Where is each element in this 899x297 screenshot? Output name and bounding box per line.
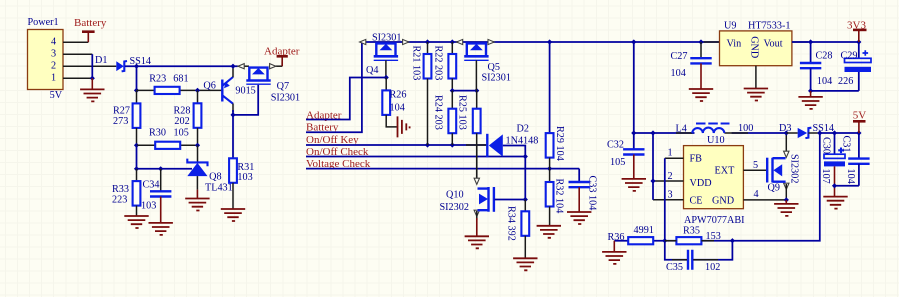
pin 4 stub	[63, 41, 88, 43]
wire ref row	[137, 145, 193, 169]
ground under U9	[744, 89, 768, 101]
svg-text:U10: U10	[707, 135, 725, 146]
svg-text:C31: C31	[841, 136, 852, 153]
ground under C27	[700, 63, 702, 89]
capacitor C33	[569, 169, 598, 211]
svg-text:C35: C35	[666, 262, 683, 273]
node rail R21	[425, 39, 430, 44]
svg-text:5V: 5V	[50, 90, 63, 101]
svg-text:226: 226	[838, 76, 853, 87]
ground under C33	[578, 187, 580, 212]
svg-text:GND: GND	[712, 196, 734, 207]
ground under C30 C31	[834, 166, 836, 196]
svg-text:U9: U9	[724, 21, 736, 32]
node rail R22	[450, 39, 455, 44]
wire Q4 gate down	[385, 60, 387, 77]
node base-R28	[195, 88, 200, 93]
resistor R35	[676, 226, 720, 245]
svg-text:Vin: Vin	[727, 39, 742, 50]
svg-text:104: 104	[845, 169, 856, 184]
resistor R32	[546, 169, 565, 226]
node C34 top	[158, 166, 163, 171]
node Q4 gate adapter	[384, 75, 389, 80]
svg-text:Q5: Q5	[488, 62, 500, 73]
node C35 right	[730, 238, 735, 243]
svg-text:104: 104	[390, 103, 405, 114]
wire FB down	[664, 158, 666, 241]
svg-text:On/Off Key: On/Off Key	[306, 134, 359, 146]
svg-text:Q7: Q7	[277, 81, 289, 92]
resistor R25	[457, 91, 481, 180]
node FB join	[662, 238, 667, 243]
svg-text:R25 103: R25 103	[457, 95, 468, 130]
svg-text:D1: D1	[95, 55, 107, 66]
svg-text:104: 104	[817, 76, 832, 87]
svg-text:9015: 9015	[235, 86, 255, 97]
svg-text:4: 4	[51, 37, 56, 48]
wire down to R23 row	[136, 66, 138, 90]
net label Battery	[306, 42, 362, 134]
pin 5 EXT	[743, 160, 766, 171]
net label Adapter	[306, 78, 386, 122]
svg-text:Q4: Q4	[366, 65, 378, 76]
resistor R34	[506, 200, 530, 259]
svg-text:3: 3	[668, 190, 673, 201]
node vcheck R32	[547, 166, 552, 171]
node C28	[808, 39, 813, 44]
wire rail down to L4	[633, 42, 635, 149]
pin 1 FB	[665, 148, 684, 159]
node ref left	[134, 166, 139, 171]
transistor Q6 9015	[203, 66, 255, 112]
svg-text:104: 104	[671, 68, 686, 79]
svg-text:CE: CE	[690, 196, 703, 207]
capacitor C30 polarized	[820, 133, 845, 184]
svg-text:1: 1	[51, 73, 56, 84]
resistor R22	[433, 42, 457, 91]
pin 2 stub	[63, 65, 116, 67]
svg-text:R33: R33	[112, 184, 129, 195]
svg-text:5: 5	[753, 160, 758, 171]
svg-text:1: 1	[668, 148, 673, 159]
capacitor C29 polarized	[838, 42, 871, 87]
ground under Q8	[196, 190, 198, 199]
capacitor C31	[835, 133, 870, 186]
ground under R34	[513, 258, 537, 270]
svg-text:D3: D3	[779, 123, 791, 134]
resistor R33	[112, 169, 140, 216]
svg-text:R35: R35	[683, 226, 700, 237]
svg-text:103: 103	[237, 172, 252, 183]
wire U10 supply	[652, 133, 654, 200]
junction pin1	[90, 76, 95, 81]
svg-text:102: 102	[705, 262, 720, 273]
pin 3 CE	[653, 190, 684, 201]
power port Adapter (left)	[264, 46, 300, 67]
svg-text:C32: C32	[607, 140, 624, 151]
svg-text:VDD: VDD	[690, 178, 712, 189]
svg-text:R22 203: R22 203	[433, 46, 444, 81]
svg-text:C27: C27	[671, 51, 688, 62]
net label Voltage Check	[306, 158, 579, 170]
ground under Q9	[785, 200, 787, 204]
node C30 C31 gnd join	[832, 183, 837, 188]
pin 1 stub	[63, 77, 92, 79]
wire Q7 drain up	[281, 61, 283, 66]
svg-text:100: 100	[738, 123, 753, 134]
wire U9 gnd pin	[755, 66, 757, 89]
resistor R31	[229, 158, 254, 209]
node D2 gate row	[523, 197, 528, 202]
node C30	[832, 130, 837, 135]
wire D1 cathode rail	[125, 65, 238, 67]
transistor Q4 SI2301	[360, 33, 409, 77]
resistor R30	[149, 128, 189, 149]
node Q9 drain	[784, 130, 789, 135]
svg-text:R21 103: R21 103	[411, 46, 422, 81]
diode D2 1N4148	[466, 124, 538, 158]
svg-text:Power1: Power1	[28, 17, 59, 28]
svg-text:105: 105	[174, 128, 189, 139]
node R30 right	[195, 143, 200, 148]
svg-text:SI2302: SI2302	[789, 154, 800, 183]
svg-text:C30: C30	[821, 137, 832, 154]
resistor R36	[608, 225, 654, 244]
node feedback	[817, 130, 822, 135]
svg-text:SI2301: SI2301	[482, 73, 511, 84]
svg-text:C33 104: C33 104	[587, 176, 598, 211]
svg-text:R29 104: R29 104	[554, 126, 565, 161]
chip U10 APW7077ABI	[684, 135, 746, 226]
regulator Q8 TL431	[187, 145, 232, 193]
wire 5V row	[820, 132, 859, 134]
svg-text:Q9: Q9	[768, 183, 780, 194]
node VDD	[650, 178, 655, 183]
node C31 5V	[856, 130, 861, 135]
ground left of R36	[613, 241, 615, 252]
resistor R28	[174, 90, 202, 145]
resistor R21	[411, 42, 432, 145]
svg-text:Vout: Vout	[764, 39, 783, 50]
power port 5V	[853, 110, 867, 133]
transistor Q9 SI2302	[767, 133, 799, 200]
inductor L4	[676, 123, 754, 134]
node key R24	[450, 142, 455, 147]
ground under C32	[633, 155, 635, 179]
svg-text:5V: 5V	[853, 110, 867, 122]
svg-text:L4: L4	[676, 124, 687, 135]
net label On/Off Key	[306, 134, 486, 146]
svg-text:FB: FB	[690, 154, 703, 165]
svg-text:TL431: TL431	[205, 182, 233, 193]
svg-text:Battery: Battery	[74, 17, 107, 29]
node rail C27	[698, 39, 703, 44]
power port Battery	[74, 17, 107, 42]
capacitor C34	[141, 169, 171, 212]
node Q7 gate tie	[230, 112, 235, 117]
ground under connector	[91, 78, 93, 89]
node C28 gnd	[808, 88, 813, 93]
svg-text:EXT: EXT	[715, 166, 736, 177]
ground under R33	[124, 216, 148, 228]
regulator U9 HT7533-1	[720, 21, 792, 66]
ground under Q10	[476, 218, 478, 236]
node R23 left	[134, 88, 139, 93]
svg-text:681: 681	[173, 73, 188, 84]
pin 3 stub	[63, 53, 92, 55]
node key R21	[425, 142, 430, 147]
transistor Q5 SI2301	[457, 39, 511, 83]
node R30 left	[134, 143, 139, 148]
wire Q5 gate down	[475, 60, 477, 90]
pin 4 GND	[743, 189, 786, 200]
svg-text:R30: R30	[149, 128, 166, 139]
svg-text:C29: C29	[841, 51, 858, 62]
wire feedback down	[614, 133, 820, 241]
ground under R32	[537, 226, 561, 238]
svg-text:GND: GND	[749, 36, 760, 58]
svg-text:R24 203: R24 203	[433, 95, 444, 130]
wire pin3 to pin1	[91, 54, 93, 78]
node check D2	[523, 154, 528, 159]
svg-text:C28: C28	[816, 51, 833, 62]
node rail R29	[547, 39, 552, 44]
wire L4 row	[634, 132, 786, 134]
svg-text:202: 202	[174, 116, 189, 127]
connector Power1	[28, 17, 64, 101]
svg-text:Q8: Q8	[209, 172, 221, 183]
capacitor C35	[665, 241, 733, 273]
svg-text:223: 223	[112, 194, 127, 205]
node rail-R23	[134, 64, 139, 69]
resistor R29	[546, 42, 565, 169]
ground under C28	[810, 91, 812, 97]
wire base row	[137, 89, 222, 91]
wire Q6 emitter down	[232, 110, 234, 159]
svg-text:SI2301: SI2301	[271, 92, 300, 103]
node Q6 collector rail	[230, 64, 235, 69]
svg-text:R34 392: R34 392	[506, 206, 517, 241]
diode D1 SS14	[95, 55, 151, 71]
node rail vert feed	[631, 39, 636, 44]
svg-text:HT7533-1: HT7533-1	[748, 21, 790, 32]
svg-text:R32 104: R32 104	[554, 179, 565, 214]
wire Q5 gate row	[452, 90, 476, 92]
resistor R27	[113, 90, 140, 145]
ground under C34	[160, 197, 162, 223]
svg-text:2: 2	[51, 61, 56, 72]
wire Q7 gate to node	[233, 85, 258, 115]
pin 2 VDD	[653, 171, 684, 182]
resistor R26	[382, 78, 406, 127]
svg-text:Q10: Q10	[446, 190, 464, 201]
svg-text:107: 107	[820, 169, 831, 184]
node C29	[856, 39, 861, 44]
wire R30 row	[137, 144, 198, 146]
node L4 feed	[631, 130, 636, 135]
transistor Q7 SI2301	[238, 64, 300, 104]
resistor R24	[433, 91, 457, 145]
svg-text:D2: D2	[517, 124, 529, 135]
wire Vout pin	[792, 41, 808, 43]
svg-text:R36: R36	[608, 232, 625, 243]
svg-text:SI2301: SI2301	[372, 33, 401, 44]
wire D2 anode down	[503, 146, 526, 200]
capacitor C32	[607, 140, 645, 169]
diode D3 SS14	[779, 123, 834, 138]
net label On/Off Check	[306, 146, 525, 158]
svg-text:4: 4	[754, 189, 759, 200]
wire Vin pin	[704, 41, 720, 43]
node Q9 source gnd	[784, 197, 789, 202]
svg-text:Q6: Q6	[203, 81, 215, 92]
wire Vout	[792, 41, 859, 43]
ground under R31	[221, 209, 245, 221]
svg-text:SI2302: SI2302	[440, 202, 469, 213]
svg-text:APW7077ABI: APW7077ABI	[684, 215, 745, 226]
svg-text:273: 273	[113, 116, 128, 127]
ground right of R26	[398, 116, 410, 137]
svg-text:R23: R23	[149, 73, 166, 84]
transistor Q10 SI2302	[440, 145, 494, 220]
svg-text:4991: 4991	[634, 225, 654, 236]
capacitor C28	[800, 42, 859, 91]
capacitor C27	[671, 42, 712, 79]
wire top rail	[362, 41, 720, 43]
svg-text:103: 103	[141, 201, 156, 212]
node gate R25	[474, 88, 479, 93]
resistor R23	[149, 73, 188, 94]
svg-text:105: 105	[610, 157, 625, 168]
wire Q10 gate row	[495, 199, 526, 201]
node U10 feed	[650, 130, 655, 135]
svg-text:R26: R26	[390, 90, 407, 101]
svg-text:3: 3	[51, 49, 56, 60]
power port 3V3	[847, 20, 867, 43]
node R22 R24 gate	[450, 88, 455, 93]
svg-text:C34: C34	[143, 180, 160, 191]
